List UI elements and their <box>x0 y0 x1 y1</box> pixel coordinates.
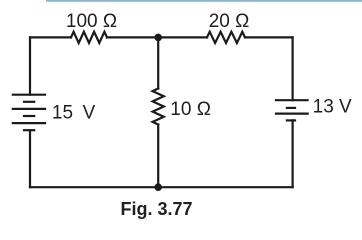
svg-text:Fig. 3.77: Fig. 3.77 <box>120 199 192 219</box>
wire top-middle segment <box>107 36 207 38</box>
wire left vertical upper <box>29 37 31 94</box>
wire bottom <box>30 186 293 188</box>
blue header rule <box>46 0 362 2</box>
wire middle vertical upper <box>157 37 159 88</box>
wire top-left segment <box>30 36 71 38</box>
svg-text:100 Ω: 100 Ω <box>66 11 117 32</box>
svg-text:20 Ω: 20 Ω <box>209 11 250 32</box>
battery V2 13V plates <box>275 100 309 120</box>
wire right vertical lower <box>292 120 294 187</box>
wire top-right segment <box>245 36 293 38</box>
wire right vertical upper <box>292 37 294 100</box>
svg-text:13 V: 13 V <box>313 97 352 118</box>
wire left vertical lower <box>29 130 31 187</box>
wire middle vertical lower <box>157 125 159 188</box>
svg-text:V: V <box>83 102 96 123</box>
resistor R3 10 ohm zigzag <box>153 89 164 125</box>
node junction dot bottom <box>154 183 162 191</box>
node junction dot top <box>154 34 162 42</box>
svg-text:10 Ω: 10 Ω <box>170 99 211 120</box>
resistor R1 100 ohm zigzag <box>71 32 107 43</box>
battery V1 15V plates <box>12 95 46 131</box>
svg-text:15: 15 <box>52 102 73 123</box>
resistor R2 20 ohm zigzag <box>207 32 245 43</box>
